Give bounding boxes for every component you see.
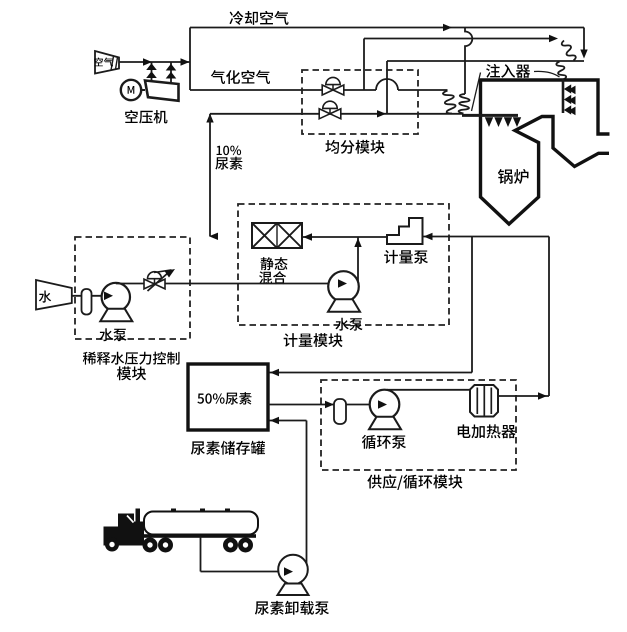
label 尿素储存罐	[191, 441, 265, 455]
truck wheels	[105, 538, 253, 553]
wire riser x387	[386, 61, 388, 114]
boiler 锅炉	[481, 80, 610, 224]
flow arrow urea line	[377, 110, 386, 117]
wire urea line y114	[210, 113, 462, 115]
label 计量模块	[284, 333, 343, 347]
flex hose H4	[443, 91, 456, 114]
wire compressor riser x190	[189, 28, 191, 91]
dilution water pump 水泵	[100, 283, 132, 321]
dilution module box	[75, 237, 190, 339]
wire urea branch y61	[387, 60, 584, 62]
truck cab	[104, 509, 145, 546]
wire tank outlet	[268, 404, 380, 406]
wire riser x364	[363, 39, 365, 91]
water intake	[36, 280, 72, 310]
unloading pump 尿素卸载泵	[278, 555, 309, 595]
wire pump-to-heater	[387, 389, 470, 391]
flow arrow into riser	[209, 233, 218, 240]
check valve CV2	[166, 62, 177, 85]
flex hose H2	[556, 62, 566, 80]
supply module box 供应/循环模块	[321, 380, 516, 470]
wire truck-to-pump	[201, 537, 282, 572]
compressor motor M	[121, 80, 145, 100]
water strainer capsule	[82, 289, 92, 315]
wire mixer-to-meteringpump	[302, 236, 387, 238]
label 锅炉	[498, 169, 529, 184]
flow arrow urea-riser up	[206, 114, 213, 123]
wire heater outlet	[498, 237, 549, 397]
label 注入器 with pointers	[472, 64, 560, 111]
wire return line	[270, 237, 473, 373]
wire pump riser x358	[357, 237, 359, 281]
label 空压机	[125, 110, 167, 124]
flow arrow into tank (return)	[270, 369, 279, 376]
flow arrow heater outlet	[538, 392, 547, 399]
label 冷却空气	[229, 11, 288, 25]
flow arrow into mixer	[303, 233, 312, 240]
pipe crossover hump	[376, 79, 398, 90]
circulation pump 循环泵	[369, 390, 401, 430]
supply strainer capsule	[334, 399, 346, 424]
flow arrow cooling-drop down	[580, 50, 587, 59]
wire urea riser x210	[209, 114, 211, 237]
wire unloading line	[270, 421, 307, 566]
label 稀释水压力控制模块	[83, 352, 180, 381]
flow arrow into tank (unloading)	[270, 417, 279, 424]
wire filter-to-header	[119, 61, 190, 63]
electric heater 电加热器	[470, 385, 498, 417]
wire dilution-water line	[116, 283, 329, 285]
wall injector lance	[462, 115, 521, 127]
flow arrow tank outlet	[325, 401, 334, 408]
valve V2 (urea)	[319, 101, 341, 119]
wire cooling drop x584	[583, 28, 585, 51]
wire air line2 y38.5	[364, 38, 550, 40]
label 10% 尿素	[215, 146, 242, 170]
flow arrow A2	[181, 58, 190, 65]
flow arrow cooling	[443, 24, 452, 31]
label 水泵 (metering)	[335, 318, 362, 331]
flow arrow line2	[549, 35, 558, 42]
label 气化空气	[211, 70, 270, 84]
wire cooling-air header	[190, 27, 584, 29]
wire cooling branch x466 with jog	[465, 28, 472, 95]
label 静态混合	[259, 257, 287, 284]
urea storage tank 50%	[188, 364, 268, 430]
truck tanker	[139, 509, 258, 538]
wire supply-to-meteringpump	[423, 236, 550, 238]
distribution module box 均分模块	[302, 70, 418, 134]
air intake filter	[94, 51, 119, 74]
flow arrow A1	[143, 58, 152, 65]
label 计量泵	[384, 250, 428, 264]
flex hose H1	[562, 41, 576, 61]
label 供应/循环模块	[367, 474, 462, 490]
top injector lance	[563, 79, 576, 115]
valve V1 (atomizing air)	[322, 77, 344, 95]
label 尿素卸载泵	[255, 601, 329, 615]
air compressor body	[145, 81, 179, 101]
static mixer	[252, 223, 302, 248]
wire atomizing-air segment c	[398, 89, 448, 91]
metering module box 计量模块	[238, 204, 449, 325]
flow arrow into metering pump	[424, 233, 433, 240]
label 循环泵	[362, 435, 406, 449]
wire atomizing-air segment b	[344, 89, 376, 91]
wire atomizing-air segment a	[190, 89, 322, 91]
check valve CV1	[146, 62, 157, 82]
metering pump 计量泵	[387, 218, 423, 244]
label 均分模块	[325, 140, 384, 154]
metering water pump 水泵	[328, 271, 360, 312]
flow arrow riser up	[354, 238, 361, 247]
pressure regulating valve V3	[144, 269, 175, 291]
label 水泵 (dilution)	[99, 328, 126, 341]
label 电加热器	[458, 424, 516, 438]
wire intake-to-pump	[72, 295, 107, 297]
flex hose H3	[459, 94, 470, 114]
